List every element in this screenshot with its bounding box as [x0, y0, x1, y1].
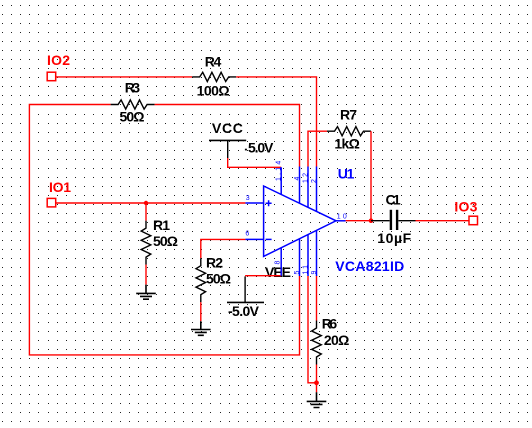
U1 pin 3: [245, 195, 263, 203]
wire U1 pin 10 to output node: [346, 220, 371, 222]
node junction at R1: [144, 201, 148, 205]
ground at output stage: [307, 392, 327, 407]
connector IO2: [47, 52, 70, 81]
svg-text:R6: R6: [322, 315, 338, 331]
svg-text:VCA821ID: VCA821ID: [335, 258, 404, 274]
wire U1 pin 11 to ground node: [308, 276, 317, 383]
svg-text:C1: C1: [386, 191, 401, 207]
connector IO3: [454, 198, 477, 224]
svg-text:R3: R3: [125, 80, 141, 96]
resistor R6: [312, 315, 350, 364]
svg-text:100Ω: 100Ω: [197, 82, 230, 98]
wire IO2 to R4: [56, 76, 193, 78]
svg-text:20Ω: 20Ω: [324, 332, 350, 348]
svg-text:IO2: IO2: [47, 52, 70, 68]
svg-text:10µF: 10µF: [377, 230, 411, 246]
svg-text:3: 3: [246, 195, 252, 202]
svg-text:6: 6: [245, 231, 251, 238]
svg-text:R1: R1: [153, 217, 170, 233]
wire R3 to U1 pin 4: [155, 105, 300, 167]
wire IO1 to U1 pin 3: [56, 202, 246, 204]
node junction at ground: [314, 380, 319, 385]
U1 pin 10 output: [336, 213, 349, 220]
resistor R3: [111, 80, 155, 125]
node junction at output: [369, 218, 374, 223]
svg-text:8: 8: [275, 258, 282, 264]
svg-text:9: 9: [311, 268, 318, 274]
wire junction to R1: [145, 203, 147, 221]
U1 pins 1,14: [276, 159, 283, 195]
resistor R2: [196, 255, 231, 303]
wire U1 pin 9 to R6: [316, 276, 318, 321]
svg-text:VEE: VEE: [265, 264, 291, 280]
svg-text:IO1: IO1: [49, 179, 71, 195]
wire C1 to IO3: [416, 220, 470, 222]
ground at R2: [191, 321, 211, 335]
wire R3 to U1 pin 5 feedback loop: [29, 105, 299, 355]
wire R6 to ground node: [316, 365, 318, 383]
wire VCC to U1 pins 1,14: [228, 158, 282, 167]
power VCC: [209, 120, 274, 158]
wire junction to ground: [316, 383, 318, 393]
resistor R4: [192, 53, 236, 98]
wire VEE to U1 pin 8: [245, 275, 281, 277]
U1 pin 9: [311, 231, 318, 276]
wire U1 pin 12 to R7: [308, 131, 327, 166]
op-amp U1: [264, 165, 355, 256]
svg-text:10: 10: [337, 213, 349, 220]
svg-text:50Ω: 50Ω: [206, 271, 231, 287]
svg-text:U1: U1: [338, 165, 355, 181]
U1 pin 2: [311, 167, 318, 212]
svg-text:1,14: 1,14: [276, 159, 283, 181]
wire R7 to output node: [370, 131, 372, 221]
resistor R1: [141, 217, 178, 265]
U1 pin 8: [275, 248, 282, 276]
svg-text:R2: R2: [206, 255, 223, 271]
capacitor C1: [371, 191, 416, 245]
svg-text:4: 4: [294, 174, 301, 180]
resistor R7: [327, 106, 371, 151]
connector IO1: [47, 179, 71, 207]
svg-text:5.0V: 5.0V: [248, 140, 274, 156]
U1 pin 5: [294, 239, 301, 276]
wire R2 to ground: [200, 302, 202, 321]
U1 pin 12: [302, 167, 309, 208]
svg-text:IO3: IO3: [454, 198, 477, 214]
wire R1 to ground: [145, 265, 147, 285]
svg-text:R7: R7: [340, 106, 357, 122]
svg-text:2: 2: [311, 177, 318, 183]
U1 pin 4: [294, 167, 301, 204]
svg-text:50Ω: 50Ω: [153, 233, 178, 249]
svg-text:50Ω: 50Ω: [120, 108, 145, 124]
svg-text:1kΩ: 1kΩ: [334, 135, 360, 151]
U1 pin 11: [302, 235, 309, 276]
svg-text:5: 5: [294, 268, 301, 274]
wire R4 to U1 pin 2: [236, 77, 316, 167]
U1 pin 6: [245, 231, 263, 240]
svg-text:-5.0V: -5.0V: [228, 303, 260, 319]
svg-text:12: 12: [302, 171, 309, 183]
ground at R1: [136, 285, 156, 300]
wire U1 pin 6 to R2: [201, 239, 246, 258]
svg-text:R4: R4: [205, 53, 222, 69]
svg-text:11: 11: [302, 263, 309, 275]
power VEE: [227, 264, 291, 319]
svg-text:VCC: VCC: [212, 120, 243, 136]
